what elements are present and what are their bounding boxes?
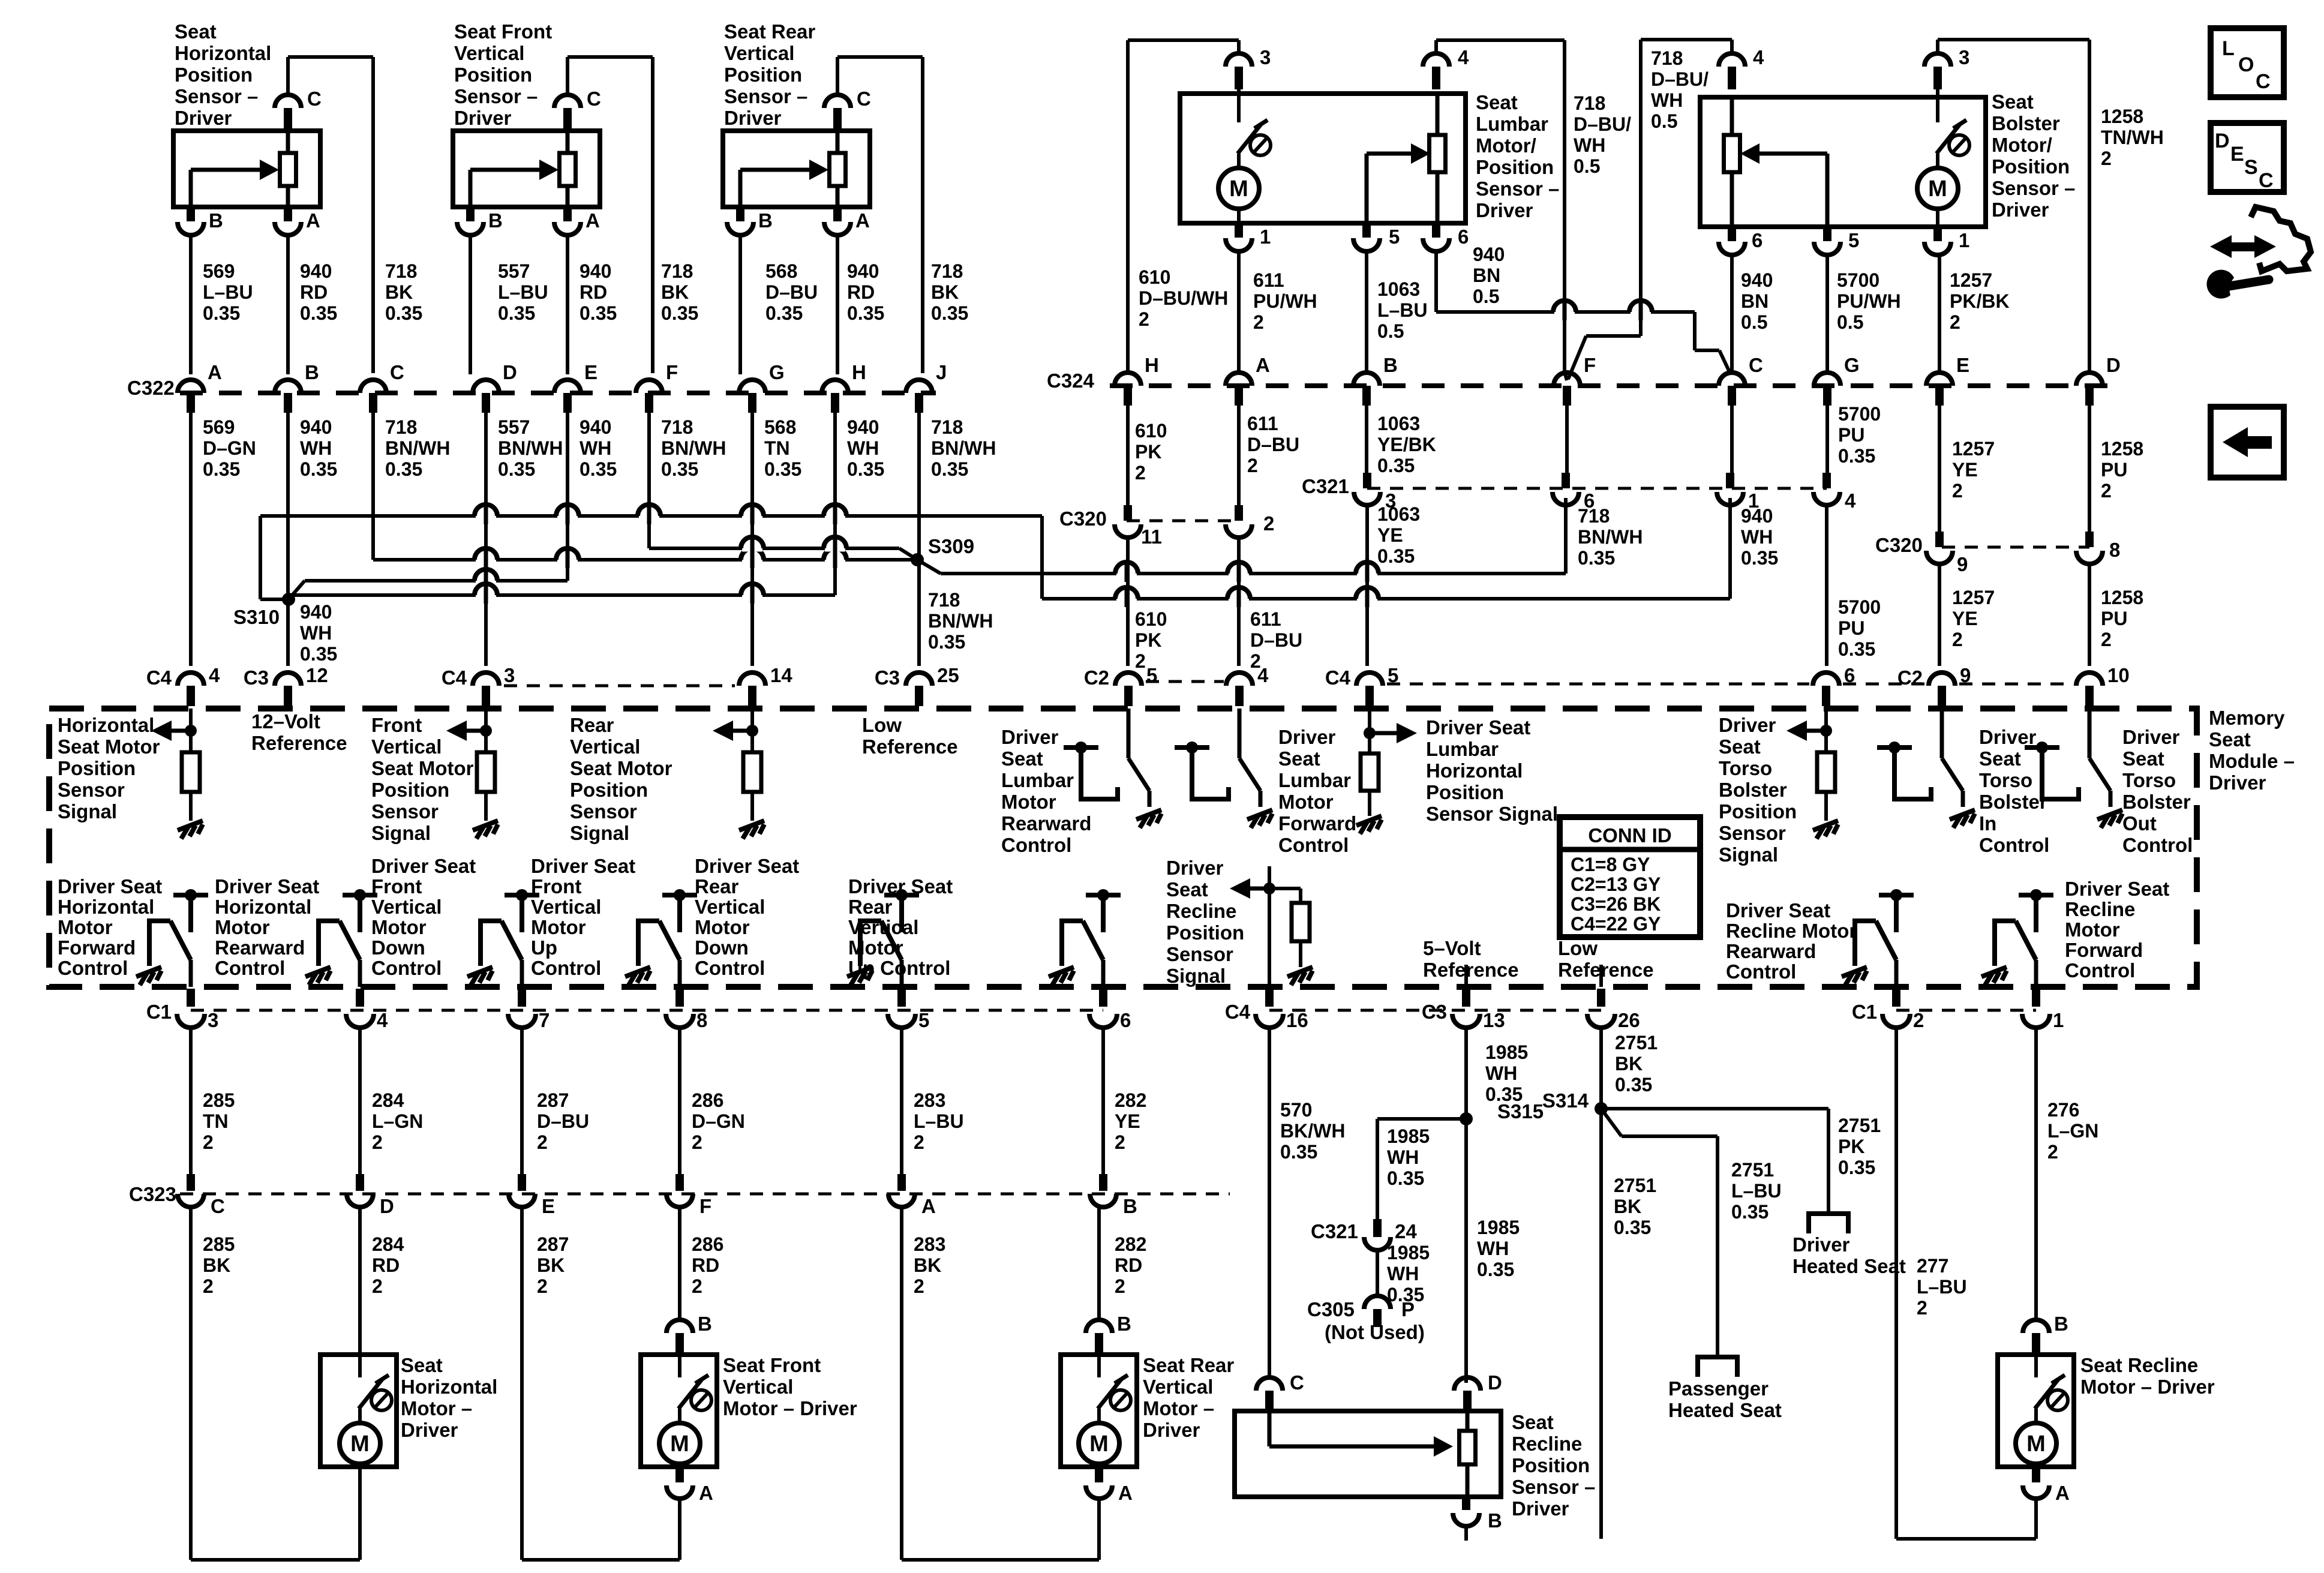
svg-text:C2=13 GY: C2=13 GY [1571, 873, 1661, 895]
svg-text:24: 24 [1395, 1220, 1417, 1242]
wire C320-2 to module pin 4 [1237, 537, 1241, 666]
wire 284 RD to horizontal motor [358, 1206, 362, 1355]
svg-text:C3: C3 [244, 667, 269, 689]
bolster pin 4 [1719, 53, 1745, 67]
connector C324 pin B [1353, 373, 1380, 386]
connector C324 dashed row [1110, 383, 2112, 388]
bolster pin 1 [1933, 227, 1942, 241]
wire C322-D to module pin C4-3 [484, 413, 488, 666]
hop 718-C bus over x=1254 [742, 557, 762, 563]
resistor Rear [743, 752, 761, 792]
connector C321 pin 24 [1364, 1237, 1391, 1250]
svg-text:C4: C4 [442, 667, 467, 689]
svg-text:A: A [585, 209, 600, 232]
connector C324 pin E [1926, 373, 1953, 386]
potentiometer inside sensor 3 [830, 153, 846, 186]
svg-text:1: 1 [1959, 229, 1969, 251]
svg-text:B: B [209, 209, 223, 232]
connector C323 dashed row [180, 1193, 1230, 1196]
ground Horizontal [178, 821, 203, 839]
svg-text:S: S [2244, 156, 2258, 179]
wire C322-J through S309 to module pin C3-25 [917, 413, 921, 666]
svg-text:C1=8 GY: C1=8 GY [1571, 854, 1650, 875]
svg-text:C3=26 BK: C3=26 BK [1571, 893, 1661, 915]
wire 5700 C324-G to C321-4 [1825, 406, 1829, 476]
connector C322 pin B [275, 380, 301, 393]
resistor Front [477, 752, 495, 792]
wire lumbar pin6 down to bus 940BN [1434, 251, 1438, 312]
wire lumbar motor to pin 1 [1237, 207, 1241, 223]
pin C sensor 1 [275, 95, 301, 108]
ground Rear [739, 821, 764, 839]
bus 718 from C322-F [649, 547, 899, 550]
wire 1258 C324-D to C320-8 [2088, 406, 2091, 538]
module top connector dashed links [504, 685, 735, 688]
CONN ID table [1560, 817, 1700, 937]
wire 282 RD to rear vertical motor pin B [1097, 1206, 1101, 1320]
svg-text:C2: C2 [1084, 667, 1109, 689]
wire 283 BK to rear vertical motor low side [900, 1206, 903, 1560]
wire bolster pin1 down to C324-E [1938, 254, 1941, 374]
contact T Up Control [662, 889, 697, 932]
switch blade Driver Control [1238, 709, 1242, 758]
svg-text:C320: C320 [1875, 534, 1923, 556]
svg-text:4: 4 [1458, 46, 1469, 68]
hop 940WH bus over x=810 [476, 513, 496, 520]
svg-text:A: A [208, 361, 222, 383]
pin B sensor 2 [466, 207, 475, 221]
wire module pin C1-1 down to recline motor pin B [2034, 1026, 2038, 1320]
svg-text:C: C [2256, 70, 2271, 93]
motor pin A [675, 1467, 684, 1482]
connector C323 pin C [187, 1174, 195, 1191]
wire 718 lumbar jog to C324-F [1565, 372, 1567, 380]
wire 1063 C324-B to C321-3 [1365, 406, 1368, 476]
svg-text:M: M [1229, 176, 1248, 202]
svg-text:6: 6 [1844, 664, 1855, 686]
contact T Driver Control [2025, 742, 2059, 785]
wire C322-F down to 718 bus upper [647, 413, 651, 548]
module top pin 4 [1226, 673, 1253, 686]
connector C322 pin D [473, 380, 499, 393]
svg-text:7: 7 [539, 1009, 550, 1031]
module top pin C3 12 [275, 673, 301, 686]
wire lumbar pin3 top link [1237, 40, 1241, 54]
svg-text:B: B [1488, 1509, 1502, 1532]
ground Up Control [625, 967, 650, 985]
svg-text:14: 14 [770, 664, 792, 686]
svg-text:C4: C4 [146, 667, 172, 689]
icon back arrow box [2211, 407, 2284, 478]
wire C322-A to module pin C4-4 [189, 413, 193, 666]
S309 branch to C321 pin 6 [917, 560, 941, 574]
component box Seat Recline Position Sensor - Driver [1235, 1411, 1501, 1497]
svg-text:C3: C3 [875, 667, 900, 689]
module top pin 14 [739, 673, 765, 686]
junction S310 [282, 593, 295, 606]
hop 718-C bus over x=810 [476, 557, 496, 563]
svg-text:C2: C2 [1897, 667, 1923, 689]
svg-text:1: 1 [2053, 1009, 2064, 1031]
svg-text:11: 11 [1141, 526, 1162, 548]
wire bolster pin3 top link to 1258 TN/WH [1936, 40, 1939, 54]
wire C322-E down to 940 branch [566, 413, 569, 581]
hop 940WH bus over x=1254 [742, 513, 762, 520]
wire lumbar pin1 down to C324-A [1237, 251, 1241, 374]
pin C sensor 3 [824, 95, 851, 108]
svg-text:O: O [2238, 53, 2254, 76]
svg-text:H: H [1145, 354, 1159, 376]
ground lumbar horizontal signal [1356, 816, 1382, 834]
svg-text:C4=22 GY: C4=22 GY [1571, 913, 1661, 935]
svg-text:C: C [1290, 1371, 1304, 1394]
bolster motor switch and M [1917, 88, 1969, 218]
wire module pin to C323 x=600 [358, 1026, 362, 1174]
svg-text:A: A [855, 209, 870, 232]
ground Motor Up Control [1049, 967, 1074, 985]
svg-text:4: 4 [209, 664, 220, 686]
wire low reference pin 26 inside module [1599, 965, 1603, 987]
module bottom pin 26 [1597, 989, 1605, 1007]
svg-text:C: C [587, 88, 601, 110]
connector C322 pin J [906, 380, 932, 393]
resistor recline position signal [1269, 887, 1301, 890]
svg-text:C: C [211, 1195, 225, 1217]
connector C321 pin 6 [1562, 473, 1570, 488]
hop S310-E branch over D [476, 578, 496, 584]
svg-text:C: C [390, 361, 404, 383]
svg-text:8: 8 [696, 1009, 707, 1031]
svg-text:B: B [2054, 1313, 2068, 1335]
switch blade Motor Up Control [1062, 921, 1083, 966]
lumbar pin 4 [1423, 53, 1449, 67]
connector C323 pin E [518, 1174, 526, 1191]
wire pin C up and over sensor 1 [286, 57, 290, 95]
svg-text:940WH0.35: 940WH0.35 [300, 416, 337, 480]
switch blade Driver Control [1940, 709, 1944, 758]
motor pin A [2032, 1467, 2040, 1482]
bus 940WH upper horizontal [260, 514, 1042, 518]
wire C320-8 to module pin 10 [2088, 563, 2091, 666]
hop 940WH lower bus over x=1878 [1116, 596, 1137, 602]
svg-text:S315: S315 [1497, 1100, 1544, 1122]
svg-text:1: 1 [1748, 490, 1759, 512]
wire bolster pin4 top link to 718 D-BU/WH [1730, 40, 1734, 54]
wire C320-11 to module C2-5 [1126, 537, 1130, 666]
switch blade Forward Control [149, 921, 170, 966]
svg-text:26: 26 [1618, 1009, 1640, 1031]
bolster potentiometer [1724, 135, 1740, 172]
ground Forward Control [136, 967, 161, 985]
svg-text:C: C [2259, 169, 2274, 192]
switch blade Down Control [860, 921, 881, 966]
connector C320 pin 11 [1124, 505, 1132, 521]
wire lumbar pin5 down to C324-B [1365, 251, 1368, 374]
wiper arrow inside sensor 3 [740, 160, 828, 207]
bolster wiper arrow [1740, 143, 1827, 227]
svg-text:G: G [1844, 354, 1860, 376]
module top pin C3 25 [906, 673, 932, 686]
svg-text:C: C [857, 88, 871, 110]
ground recline position signal [1287, 967, 1313, 985]
svg-text:6: 6 [1458, 226, 1469, 248]
connector C322 pin E [554, 380, 581, 393]
wire module pin C4-16 to recline sensor pin C [1268, 1026, 1271, 1377]
svg-text:C305: C305 [1307, 1298, 1355, 1320]
hop S310-H branch over x=1254 [742, 592, 762, 599]
connector C322 pin A [178, 380, 204, 393]
ground Driver Control [1136, 810, 1161, 828]
lumbar pin 3 [1226, 53, 1252, 67]
motor pin B [1086, 1320, 1112, 1333]
wire module pin to C323 x=1503 [900, 1026, 903, 1174]
svg-text:M: M [1089, 1431, 1109, 1457]
svg-text:B: B [1123, 1195, 1137, 1217]
bolster pin 5 [1823, 227, 1831, 241]
branch S315 to C321 pin 24 [1377, 1117, 1466, 1121]
svg-text:S310: S310 [233, 606, 280, 628]
connector C324 pin A [1226, 373, 1252, 386]
bolster pin 6 [1728, 227, 1736, 241]
motor pin B [666, 1320, 693, 1333]
svg-text:B: B [488, 209, 503, 232]
riser to C321 pin 6 [1564, 498, 1568, 574]
svg-text:940WH0.35: 940WH0.35 [847, 416, 884, 480]
bolster pin 3 [1924, 53, 1951, 67]
hop 718-F bus over x=1254 [742, 545, 762, 552]
hop 940WH bus over x=946 [557, 513, 578, 520]
svg-text:13: 13 [1483, 1009, 1505, 1031]
hop S310-H branch over x=810 [476, 592, 496, 599]
contact T Driver Control [1064, 742, 1098, 785]
svg-text:C1: C1 [1852, 1001, 1877, 1023]
svg-text:B: B [1117, 1313, 1131, 1335]
component box Seat Horizontal Motor – Driver [320, 1355, 397, 1467]
wire C322-C down to 718 bus [371, 413, 375, 560]
wire bolster motor to pin 1 [1936, 211, 1939, 227]
module bottom pin C1 2 [1892, 989, 1900, 1007]
svg-text:C: C [1749, 354, 1763, 376]
wire 1257 C324-E to C320-9 [1938, 406, 1941, 538]
svg-text:C3: C3 [1422, 1001, 1447, 1023]
svg-text:C321: C321 [1302, 475, 1349, 497]
lumbar pin 5 [1362, 223, 1371, 238]
wire C322-H down to 940 branch [833, 413, 837, 595]
svg-text:D: D [1488, 1371, 1502, 1394]
svg-text:C322: C322 [127, 377, 175, 399]
component box Seat Recline Motor – Driver [1998, 1355, 2074, 1467]
svg-text:B: B [1383, 354, 1398, 376]
wire 718 bolster jog to C324-F [1586, 334, 1641, 338]
contact T Driver Control [1175, 742, 1209, 785]
junction dot Front [484, 709, 488, 752]
switch blade Rearward Control [1855, 921, 1876, 966]
switch blade Rearward Control [319, 921, 340, 966]
wire module pin to C323 x=1133 [678, 1026, 681, 1174]
svg-text:D: D [2215, 130, 2230, 152]
recline sensor pin C [1256, 1377, 1283, 1391]
svg-text:6: 6 [1120, 1009, 1131, 1031]
svg-text:M: M [1928, 176, 1947, 202]
pin A sensor 1 [284, 207, 292, 221]
wire module pin to C323 x=1839 [1101, 1026, 1105, 1174]
switch blade Up Control [638, 921, 659, 966]
svg-text:6: 6 [1752, 229, 1762, 251]
motor symbol Seat Rear Vertical Motor – Driver [1079, 1343, 1131, 1473]
recline sensor potentiometer [1460, 1431, 1476, 1464]
svg-text:G: G [769, 361, 785, 383]
wire recline sensor pin B to low reference [1464, 1526, 1468, 1541]
svg-text:Heated Seat: Heated Seat [1668, 1399, 1782, 1421]
contact T Motor Up Control [1086, 889, 1121, 932]
connector C324 pin H [1115, 373, 1141, 386]
junction S314 [1595, 1102, 1608, 1115]
svg-text:C4: C4 [1325, 667, 1351, 689]
svg-text:E: E [1956, 354, 1969, 376]
svg-text:D: D [503, 361, 517, 383]
ground Front [473, 821, 498, 839]
svg-text:A: A [1118, 1482, 1133, 1504]
svg-text:E: E [542, 1195, 555, 1217]
potentiometer inside sensor 1 [280, 153, 296, 186]
svg-text:M: M [350, 1431, 370, 1457]
position sensor box 3 [723, 131, 870, 207]
component box Seat Lumbar Motor/Position Sensor - Driver [1180, 94, 1466, 223]
pin A sensor 2 [563, 207, 572, 221]
hop 940WH bus over x=1082 [639, 513, 659, 520]
svg-text:5: 5 [1848, 229, 1859, 251]
svg-text:8: 8 [2109, 539, 2120, 561]
wire 718 C324-F to C321-6 [1565, 406, 1569, 476]
svg-text:6: 6 [1584, 490, 1595, 512]
connector C322 pin G [739, 380, 765, 393]
connector C320 pin 8 [2085, 532, 2094, 547]
lumbar pin 1 [1235, 223, 1243, 238]
ground Forward Control [1981, 967, 2007, 985]
hop 718-C bus over x=1392 [825, 557, 845, 563]
svg-text:F: F [699, 1195, 711, 1217]
connector C322 dashed row [180, 391, 936, 395]
svg-text:Passenger: Passenger [1668, 1377, 1768, 1400]
ground Driver Control [1950, 810, 1975, 828]
junction dot Rear [750, 709, 754, 752]
contact T Down Control [505, 889, 539, 932]
svg-text:C321: C321 [1311, 1220, 1358, 1242]
bus 940WH riser to C321 pin 1 [1728, 498, 1732, 599]
svg-text:C: C [307, 88, 322, 110]
bus 940WH corner down [1040, 516, 1044, 599]
svg-text:S309: S309 [928, 535, 974, 557]
module bottom pin 4 [356, 989, 364, 1007]
wire module pin C1-2 down to recline motor low side [1894, 1026, 1898, 1539]
wire module pin to C323 x=870 [520, 1026, 524, 1174]
junction dot lumbar horizontal signal [1368, 709, 1371, 754]
ground Rearward Control [1842, 967, 1867, 985]
connector C322 pin H [822, 380, 848, 393]
potentiometer inside sensor 2 [560, 153, 576, 186]
bus 940WH S310 left loop [259, 516, 262, 599]
svg-text:Heated Seat: Heated Seat [1792, 1255, 1906, 1277]
svg-text:3: 3 [1260, 46, 1271, 68]
svg-text:2: 2 [1263, 512, 1274, 535]
svg-text:B: B [758, 209, 773, 232]
connector C320 pin 9 [1935, 532, 1944, 547]
connector C321 pin 4 [1822, 473, 1831, 488]
connector C324 pin D [2076, 373, 2103, 386]
svg-text:C1: C1 [146, 1001, 172, 1023]
hop S309 branch over x=2279 [1357, 571, 1377, 577]
svg-text:D: D [2106, 354, 2121, 376]
component box Seat Front Vertical Motor – Driver [641, 1355, 717, 1467]
wire 611 C324-A to C320-2 [1237, 406, 1241, 511]
wire C321-24 to C305 [1376, 1250, 1379, 1296]
svg-text:3: 3 [1959, 46, 1969, 68]
module bottom pin 6 [1099, 989, 1107, 1007]
svg-text:L: L [2222, 37, 2235, 60]
module top pin C4 4 [178, 673, 204, 686]
connector C323 pin D [356, 1174, 364, 1191]
pin B sensor 1 [187, 207, 195, 221]
wire pot to top pin C sensor 2 [566, 120, 570, 153]
connector C322 pin F [636, 380, 662, 393]
motor symbol Seat Front Vertical Motor – Driver [659, 1343, 711, 1473]
module bottom pin 1 [2032, 989, 2040, 1007]
pin B sensor 3 [736, 207, 744, 221]
wire C321-3 to module C4-5 [1365, 505, 1369, 666]
module bottom pin 7 [518, 989, 526, 1007]
contact T Forward Control [173, 889, 208, 932]
switch blade Driver Control [2088, 709, 2092, 758]
svg-text:4: 4 [1753, 46, 1764, 68]
contact T Driver Control [1877, 742, 1912, 785]
icon adjust arrows with wrench [2251, 207, 2311, 271]
contact T Rearward Control [1879, 889, 1914, 932]
branch S314 to Passenger Heated Seat [1601, 1109, 1622, 1136]
hop S309 branch over x=1878 [1116, 571, 1137, 577]
svg-text:A: A [306, 209, 320, 232]
svg-text:P: P [1401, 1298, 1415, 1320]
svg-text:16: 16 [1286, 1009, 1308, 1031]
recline sensor pin D [1454, 1377, 1481, 1391]
wire 286 RD to front vertical motor pin B [678, 1206, 681, 1320]
svg-text:9: 9 [1960, 664, 1971, 686]
module bottom pin 5 [897, 989, 906, 1007]
module top pin 6 [1813, 673, 1839, 686]
motor symbol Seat Horizontal Motor – Driver [340, 1343, 392, 1473]
wire pin A down sensor 2 [566, 235, 569, 374]
svg-text:4: 4 [377, 1009, 388, 1031]
branch S314 to Driver Heated Seat [1601, 1107, 1828, 1110]
ground Driver Control [2097, 810, 2122, 828]
icon DESC box [2211, 123, 2284, 192]
wire C322-B through S310 to module pin C3-12 [286, 413, 290, 666]
svg-text:3: 3 [504, 664, 515, 686]
wire 940 C324-C to C321-1 [1730, 406, 1734, 476]
pin A sensor 3 [833, 207, 842, 221]
svg-text:12: 12 [306, 664, 328, 686]
wire bolster pin6 down to C324-C [1730, 254, 1734, 374]
wire pin C up and over sensor 2 [566, 57, 569, 95]
bus 940 BN to C324-C [1436, 310, 1695, 314]
svg-text:H: H [852, 361, 866, 383]
junction dot recline position signal [1268, 866, 1271, 987]
svg-text:F: F [1584, 354, 1596, 376]
svg-text:10: 10 [2107, 664, 2130, 686]
svg-text:A: A [2055, 1482, 2070, 1504]
wire C322-G to module pin 14 [750, 413, 754, 666]
wire pot to top pin C sensor 1 [286, 120, 290, 153]
svg-text:M: M [670, 1431, 689, 1457]
